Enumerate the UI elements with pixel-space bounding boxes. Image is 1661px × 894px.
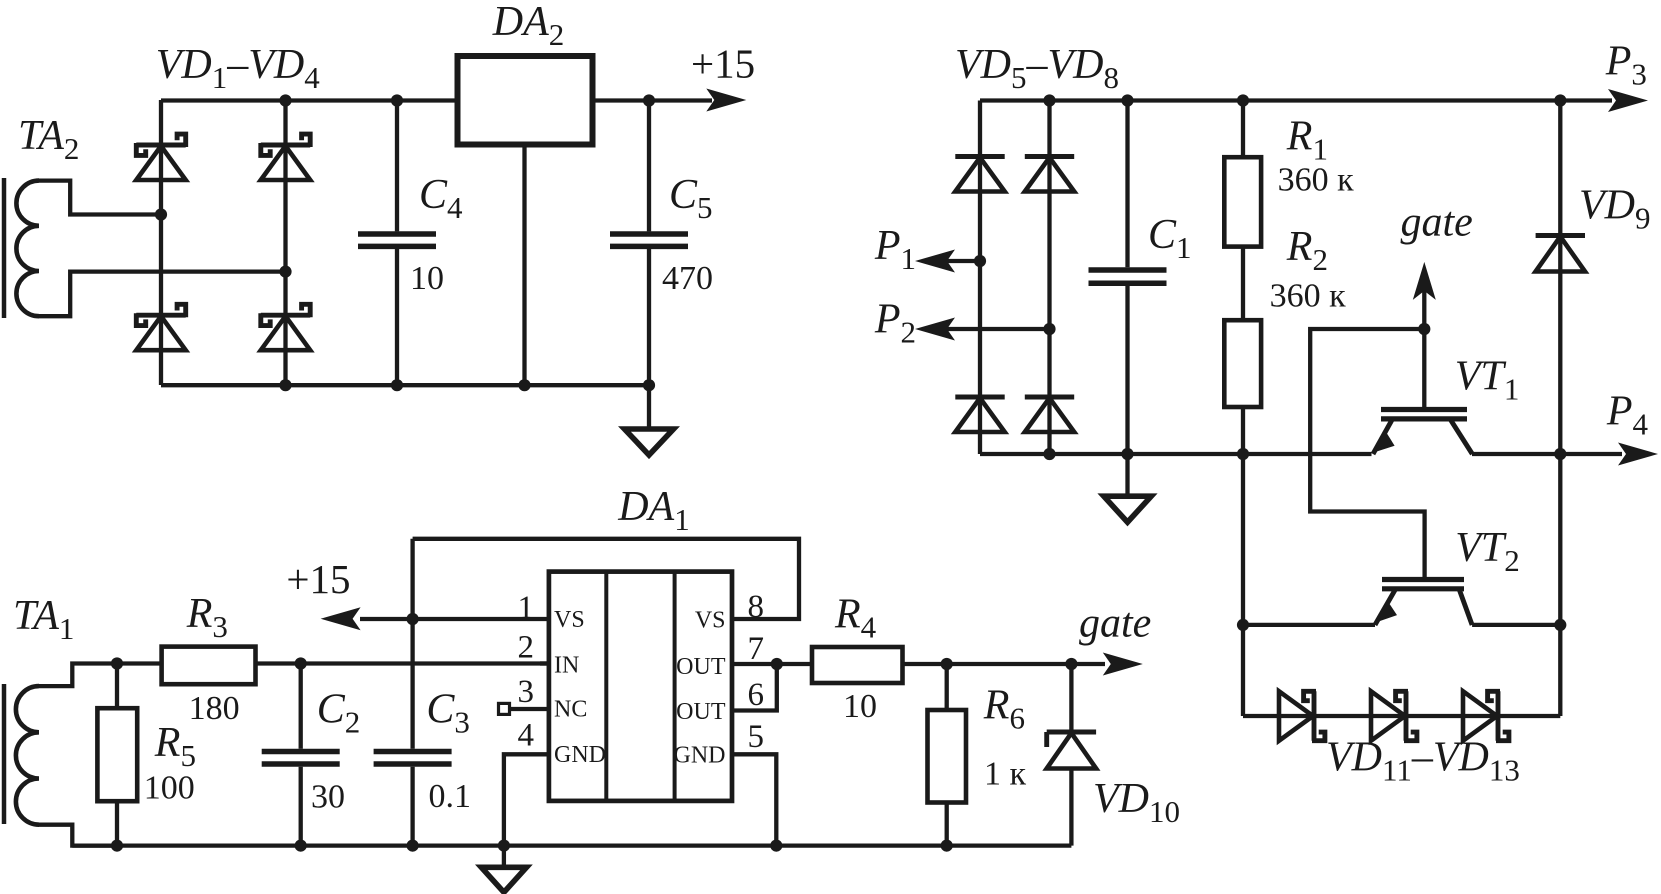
wire port P1 — [928, 259, 980, 263]
wire C3 column — [410, 539, 414, 846]
wire right bridge column A — [978, 101, 982, 455]
wire capacitor C5 column — [647, 100, 651, 385]
svg-text:gate: gate — [1079, 601, 1151, 647]
wire right column below P4 — [1558, 454, 1562, 716]
pin OUT label right — [676, 699, 726, 725]
wire top bus right section — [980, 98, 1612, 102]
diode VD8 — [1025, 397, 1074, 432]
svg-text:0.1: 0.1 — [429, 778, 472, 815]
wire VT2 collector line — [1472, 623, 1560, 627]
label TA1 — [13, 593, 74, 646]
node VT2 emitter — [1237, 619, 1249, 631]
svg-text:OUT: OUT — [676, 654, 726, 680]
diode VD12 — [1371, 691, 1417, 740]
capacitor C2 — [262, 752, 340, 765]
transformer TA1 core — [2, 684, 7, 824]
wire capacitor C1 column — [1125, 101, 1129, 455]
svg-text:1: 1 — [518, 590, 535, 626]
svg-text:10: 10 — [843, 688, 877, 725]
value 100 — [144, 770, 195, 807]
capacitor C3 — [374, 752, 452, 765]
wire pin2 stub — [540, 661, 549, 665]
pin VS label left — [554, 607, 585, 633]
svg-text:+15: +15 — [286, 556, 350, 602]
pin 8 number — [748, 589, 765, 625]
port P3 arrow — [1608, 89, 1648, 112]
value 360k-2 — [1270, 278, 1347, 315]
node R5 bottom — [111, 840, 123, 852]
svg-text:5: 5 — [748, 719, 765, 755]
node pin5 ground — [770, 840, 782, 852]
svg-text:30: 30 — [311, 779, 345, 816]
transistor VT2 — [1375, 580, 1472, 625]
wire VS top loop — [413, 539, 799, 619]
svg-text:8: 8 — [748, 589, 765, 625]
port P4 arrow — [1618, 443, 1658, 466]
node C3 bottom — [407, 840, 419, 852]
wire VD9 column — [1558, 101, 1562, 455]
pin IN label left — [554, 652, 579, 678]
node P1 — [974, 255, 986, 267]
wire bridge column 2 — [283, 100, 287, 385]
node VT2 collector — [1554, 619, 1566, 631]
capacitor C1 — [1089, 270, 1167, 283]
transformer TA1 winding — [16, 686, 39, 825]
node VD10 top — [1065, 658, 1077, 670]
ground below C5 — [625, 385, 674, 455]
transistor VT1 — [1373, 410, 1472, 455]
node C2 junction — [295, 657, 307, 669]
svg-text:1 к: 1 к — [984, 756, 1027, 793]
diode VD7 — [955, 397, 1004, 432]
label R5 — [154, 720, 196, 773]
svg-text:GND: GND — [674, 743, 726, 769]
diode VD11 — [1279, 691, 1325, 740]
value 30 — [311, 779, 345, 816]
node right top bus dots — [1043, 94, 1566, 106]
wire TA1 lead 2 — [39, 825, 117, 846]
svg-text:10: 10 — [410, 260, 444, 297]
svg-text:IN: IN — [554, 652, 579, 678]
label VD5-VD8 — [955, 42, 1119, 95]
diode VD13 — [1463, 691, 1509, 740]
label R6 — [983, 682, 1025, 735]
svg-text:6: 6 — [748, 677, 765, 713]
diode VD6 — [1025, 157, 1074, 192]
pin 5 number — [748, 719, 765, 755]
ic DA1 divider 1 — [604, 572, 608, 801]
nc square pin3 — [499, 703, 510, 714]
node TA2-bridge1 — [155, 208, 167, 220]
wire DA2 ground pin — [522, 144, 526, 385]
wire bottom bus — [72, 843, 1071, 847]
node R6 bottom — [941, 840, 953, 852]
wire C2 column — [299, 664, 303, 846]
value 1k — [984, 756, 1027, 793]
wire bridge column 1 — [159, 100, 163, 385]
node C2 bottom — [295, 840, 307, 852]
label VT2 — [1455, 525, 1520, 578]
label P3 — [1605, 38, 1647, 91]
label VD9 — [1579, 183, 1651, 236]
label R1 — [1286, 113, 1328, 166]
label TA2 — [18, 113, 79, 166]
power output +15 arrow — [706, 89, 746, 112]
resistor R3 — [162, 647, 256, 685]
wire pin6 OUT — [731, 664, 777, 711]
node pin4 ground — [498, 840, 510, 852]
wire TA1 lead 1 — [39, 664, 117, 687]
port P1 arrow — [915, 250, 955, 273]
label VD1-VD4 — [156, 42, 321, 95]
svg-text:NC: NC — [554, 697, 587, 723]
value 10 — [410, 260, 444, 297]
wire R1 R2 column — [1241, 101, 1245, 717]
node R6 top — [941, 658, 953, 670]
wire R3 to IN pin — [256, 661, 549, 665]
transformer TA2 winding — [16, 181, 39, 317]
ground below C1 — [1104, 454, 1152, 522]
transformer TA2 core — [2, 178, 7, 318]
svg-text:OUT: OUT — [676, 699, 726, 725]
node pin7 junction — [771, 658, 783, 670]
label VD10 — [1093, 776, 1180, 829]
ic DA1 divider 2 — [673, 572, 677, 801]
wire zener chain line — [1243, 714, 1560, 718]
label gate top — [1401, 200, 1473, 246]
label R4 — [834, 592, 877, 645]
node TA2-bridge2 — [279, 266, 291, 278]
wire pin3 NC stub — [510, 707, 549, 711]
arrow +15 out — [321, 607, 361, 630]
label R3 — [186, 591, 228, 644]
wire VT1 gate lead — [1422, 329, 1426, 410]
pin OUT label right — [676, 654, 726, 680]
wire R4 to gate — [903, 662, 1106, 666]
diode VD4 — [261, 304, 310, 350]
svg-text:180: 180 — [189, 690, 240, 727]
wire TA2 lead 1 — [39, 181, 161, 215]
pin NC label left — [554, 697, 587, 723]
svg-text:VD1–VD4: VD1–VD4 — [156, 42, 321, 95]
node P2 — [1043, 323, 1055, 335]
label C4 — [419, 172, 463, 225]
ground below DA1 — [481, 846, 526, 893]
label C3 — [426, 686, 470, 739]
port P2 arrow — [915, 318, 955, 341]
svg-text:3: 3 — [518, 674, 535, 710]
gate arrow up — [1413, 262, 1436, 300]
wire pin1 VS — [360, 617, 549, 621]
value 10 R4 — [843, 688, 877, 725]
wire pin4 GND route — [504, 754, 549, 845]
pin 1 number — [518, 590, 535, 626]
svg-text:VS: VS — [695, 608, 726, 634]
value 360k-1 — [1278, 162, 1355, 199]
node bottom bus dots — [279, 379, 655, 391]
label DA2 — [492, 0, 565, 52]
wire VT2 emitter line — [1243, 623, 1375, 627]
diode VD1 — [136, 134, 185, 180]
pin 7 number — [748, 631, 765, 667]
pin 3 number — [518, 674, 535, 710]
pin 4 number — [518, 718, 535, 754]
pin VS label right — [695, 608, 726, 634]
node C3 top — [407, 613, 419, 625]
svg-text:2: 2 — [518, 630, 535, 666]
svg-text:100: 100 — [144, 770, 195, 807]
label C2 — [317, 686, 361, 739]
diode VD10 zener — [1047, 732, 1096, 769]
svg-text:360 к: 360 к — [1278, 162, 1355, 199]
wire R3 input — [117, 661, 162, 665]
pin GND label left — [554, 742, 606, 768]
arrow gate out — [1103, 653, 1143, 676]
svg-text:7: 7 — [748, 631, 765, 667]
resistor R5 — [97, 708, 137, 801]
svg-text:470: 470 — [662, 260, 713, 297]
wire TA2 lead 2 — [39, 272, 286, 317]
svg-text:gate: gate — [1401, 200, 1473, 246]
node top bus dots — [279, 94, 655, 106]
label C5 — [669, 172, 713, 225]
resistor R6 — [928, 710, 967, 803]
wire pin7 OUT — [731, 662, 813, 666]
resistor R2 — [1224, 320, 1261, 407]
label +15 bottom — [286, 556, 350, 602]
voltage regulator DA2 — [458, 56, 593, 145]
label VD11-VD13 — [1326, 734, 1520, 787]
wire right bridge column B — [1047, 101, 1051, 455]
value 470 — [662, 260, 713, 297]
svg-text:360 к: 360 к — [1270, 278, 1347, 315]
diode VD2 — [261, 134, 310, 180]
pin 6 number — [748, 677, 765, 713]
capacitor C5 — [610, 234, 688, 246]
resistor R1 — [1224, 157, 1261, 246]
capacitor C4 — [358, 234, 436, 246]
wire pin5 GND — [731, 754, 777, 845]
wire gate loop to VT2 — [1310, 329, 1424, 580]
wire VD10 column — [1069, 664, 1073, 846]
svg-text:4: 4 — [518, 718, 535, 754]
diode VD3 — [136, 304, 185, 350]
svg-text:GND: GND — [554, 742, 606, 768]
value 0.1 — [429, 778, 472, 815]
ic DA1 box — [549, 572, 732, 801]
wire bottom bus left section — [161, 383, 649, 387]
node right bottom bus dots — [1043, 448, 1566, 460]
diode VD5 — [955, 157, 1004, 192]
label +15 — [691, 41, 755, 87]
label P1 — [874, 223, 916, 276]
wire bottom bus right section — [980, 452, 1622, 456]
svg-text:VS: VS — [554, 607, 585, 633]
diode VD9 — [1536, 236, 1585, 272]
label gate bottom — [1079, 601, 1151, 647]
wire gate arrow line — [1422, 272, 1426, 329]
wire port P2 — [928, 327, 1050, 331]
value 180 — [189, 690, 240, 727]
label VT1 — [1455, 353, 1520, 406]
label P4 — [1606, 389, 1649, 442]
pin GND label right — [674, 743, 726, 769]
label P2 — [874, 297, 916, 350]
label DA1 — [617, 484, 690, 537]
label C1 — [1148, 212, 1192, 265]
svg-text:VD5–VD8: VD5–VD8 — [955, 42, 1119, 95]
wire R5 column — [115, 664, 119, 846]
wire capacitor C4 column — [395, 100, 399, 385]
pin 2 number — [518, 630, 535, 666]
wire top bus left section — [161, 98, 712, 102]
resistor R4 — [812, 647, 903, 683]
node R5 top — [111, 657, 123, 669]
node gate junction — [1418, 323, 1430, 335]
svg-text:+15: +15 — [691, 41, 755, 87]
wire R6 column — [945, 664, 949, 846]
label R2 — [1286, 224, 1328, 277]
